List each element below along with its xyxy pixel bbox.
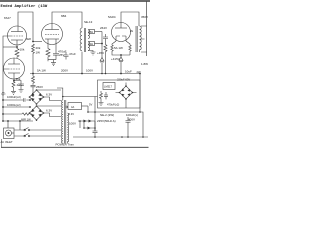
label 5V 2A: [114, 46, 123, 50]
ground OPT secondary: [88, 51, 96, 56]
tube V3 label 5AR4: [108, 15, 116, 19]
label 4 ohm: [90, 42, 93, 46]
node D row: [79, 120, 85, 122]
svg-text:47uF: 47uF: [69, 52, 76, 56]
resistor R6 inline: [22, 113, 30, 115]
title text: [1, 4, 48, 9]
label POWER Tran: [56, 142, 75, 146]
input jack J1: [4, 128, 15, 139]
node BR2 corners: [29, 105, 45, 121]
node BR1 corners: [29, 89, 45, 105]
label +45V: [97, 51, 104, 55]
wire V3 filament: [111, 41, 131, 57]
resistor R3 V2 cathode: [46, 45, 50, 62]
label 8 ohm: [90, 30, 93, 34]
switch SW1: [14, 128, 61, 131]
ground heater bus top: [1, 93, 6, 97]
wire cathode junction left: [3, 46, 17, 48]
svg-text:250V: 250V: [36, 85, 43, 89]
resistor R1 10k: [15, 47, 19, 58]
border frame bottom: [1, 146, 149, 148]
svg-text:5A 1W: 5A 1W: [37, 69, 46, 73]
wire mains line across: [63, 96, 98, 98]
wire filter down: [32, 88, 34, 97]
diodes BR2: [31, 109, 41, 117]
svg-text:6SJ7: 6SJ7: [4, 16, 11, 20]
ground V1b cathode: [11, 88, 24, 94]
diode D5 row: [84, 121, 95, 131]
svg-text:POWER Tran: POWER Tran: [56, 142, 75, 146]
tube V1: [8, 26, 27, 47]
svg-text:1000uF(x2): 1000uF(x2): [7, 95, 21, 99]
label 68R 1W: [21, 117, 31, 121]
svg-text:Ended Amplifier (13W: Ended Amplifier (13W: [1, 4, 48, 9]
label 10000u: [7, 103, 21, 107]
diode D3: [100, 58, 104, 74]
wire fuse right: [87, 106, 89, 113]
switch SW2: [14, 134, 61, 137]
capacitor C6 in box: [104, 92, 108, 99]
label R1 10k: [20, 48, 25, 52]
capacitor C9 inline: [24, 98, 25, 102]
wire V1 plate to load: [18, 12, 33, 42]
node V1 cathode junction: [16, 46, 18, 48]
label 5A 1W mid: [37, 69, 46, 73]
resistor R7 in box: [99, 91, 104, 105]
wire BR to PT: [37, 90, 62, 121]
wire R4 to rail: [105, 54, 107, 74]
label C3: [69, 52, 76, 56]
node secondary: [101, 43, 103, 45]
transformer OPT primary: [80, 28, 86, 52]
node mains junction: [62, 96, 64, 98]
fuse F1 box: [66, 103, 88, 110]
tube V3 rectifier: [112, 23, 131, 42]
label R2 C1: [16, 77, 23, 87]
capacitor C8: [126, 117, 131, 124]
svg-text:1W: 1W: [36, 51, 41, 55]
svg-text:235V(50Hz A): 235V(50Hz A): [97, 119, 116, 123]
tube V1 label: [4, 16, 11, 20]
svg-text:68R 1W: 68R 1W: [21, 117, 31, 121]
tube V2 label 6B4: [61, 14, 67, 18]
label 100V: [69, 112, 77, 126]
label 1.8W: [141, 62, 148, 66]
wire PT primary top: [57, 88, 63, 100]
svg-text:10000u(x2): 10000u(x2): [7, 103, 21, 107]
speaker terminal 8 ohm: [89, 30, 102, 34]
diodes BR3: [122, 89, 131, 97]
transformer PT main winding right: [67, 113, 68, 143]
label 10uF: [125, 70, 141, 74]
svg-text:SE-13: SE-13: [84, 20, 93, 24]
node V1b cathode: [13, 80, 15, 82]
wire OPT primary bottom: [81, 52, 83, 74]
label C2 470uF: [58, 49, 67, 56]
wire ground bus: [73, 136, 148, 138]
wire jack top riser: [8, 121, 20, 130]
svg-text:16k: 16k: [16, 77, 21, 81]
diodes D1 D2: [84, 120, 92, 123]
wire V1b grid left: [3, 47, 8, 121]
label 350V: [141, 15, 148, 19]
wire NE row: [88, 111, 140, 113]
svg-text:2k: 2k: [130, 29, 134, 33]
svg-text:10uF: 10uF: [125, 70, 132, 74]
transformer OPT secondary: [88, 30, 90, 51]
bridge rectifier BR2: [30, 106, 44, 120]
wire V2 grid: [33, 41, 42, 43]
label 264V: [100, 26, 107, 30]
diode D4: [119, 57, 123, 74]
label 220uF 63V: [117, 77, 130, 81]
svg-text:+415V: +415V: [111, 57, 120, 61]
regulator box: [98, 80, 141, 108]
node ground bus: [94, 136, 144, 138]
label 200V: [61, 69, 68, 73]
node bus dots: [2, 99, 31, 122]
capacitor C5 filter: [31, 85, 36, 89]
svg-text:10k: 10k: [20, 48, 25, 52]
svg-text:NE-2 (2W): NE-2 (2W): [100, 113, 114, 117]
svg-text:4A: 4A: [71, 105, 74, 109]
svg-text:350V: 350V: [141, 15, 148, 19]
wire right edge: [146, 1, 148, 56]
node V2 grid junction: [32, 41, 34, 43]
capacitor C2 V2 cathode: [53, 45, 59, 60]
wire right rail down: [139, 74, 141, 113]
label +415V: [111, 57, 120, 61]
label 250V: [36, 85, 43, 89]
speaker terminal 4 ohm: [89, 42, 102, 46]
svg-text:LM317: LM317: [104, 85, 112, 89]
resistor R8 plate load 20k: [32, 44, 35, 56]
diodes BR1: [31, 93, 41, 101]
IC U1 box: [103, 83, 115, 90]
capacitor C1 bypass: [14, 81, 25, 89]
transformer PT HV winding: [136, 26, 147, 52]
wire secondary common: [101, 32, 103, 58]
wire V1 grid left: [3, 36, 11, 47]
svg-text:264V: 264V: [100, 26, 107, 30]
svg-text:100V: 100V: [69, 122, 76, 126]
label 6.3V a: [46, 93, 52, 97]
diode D5: [88, 127, 91, 130]
svg-text:100V: 100V: [86, 69, 93, 73]
svg-text:4.7u: 4.7u: [17, 83, 23, 87]
resistor R4: [104, 42, 107, 54]
svg-text:6.3V: 6.3V: [46, 93, 52, 97]
resistor R5 filter: [32, 74, 35, 85]
svg-text:20k: 20k: [36, 46, 41, 50]
wire bottom-left edge: [1, 139, 3, 147]
wire C8 to bus: [127, 124, 129, 137]
wire V2 plate to OPT: [52, 12, 82, 28]
label 2k5: [130, 29, 134, 33]
ground V2 cathode: [48, 60, 56, 66]
svg-text:470uF(x2): 470uF(x2): [107, 103, 119, 107]
capacitor C4: [103, 34, 108, 42]
label 400V: [128, 117, 135, 121]
svg-text:1.8W: 1.8W: [141, 62, 148, 66]
svg-text:8Ω: 8Ω: [90, 30, 93, 34]
label 470uF x2: [107, 103, 119, 107]
label mains voltage: [97, 119, 116, 123]
wire V3 plate to HV: [121, 12, 139, 26]
node rail right: [101, 73, 141, 75]
label 100uF: [126, 113, 138, 117]
label fuse: [71, 102, 92, 109]
wire reg cap drop: [94, 97, 96, 113]
svg-text:6.3V: 6.3V: [69, 112, 75, 116]
svg-text:AC INLET: AC INLET: [1, 140, 13, 144]
svg-text:+45V: +45V: [97, 51, 104, 55]
svg-text:200V: 200V: [61, 69, 68, 73]
svg-text:220uF 63V: 220uF 63V: [117, 77, 130, 81]
node NE row: [94, 111, 141, 113]
node rectifier rail: [120, 73, 122, 75]
label R8 20k 1W: [36, 46, 41, 55]
svg-text:6k8: 6k8: [26, 37, 31, 41]
label U1: [104, 85, 112, 89]
label 6.3V b: [46, 109, 52, 113]
border frame top: [0, 0, 150, 2]
tube V1b: [4, 58, 25, 81]
capacitor C7: [93, 112, 98, 137]
wire B+ rail: [30, 73, 140, 75]
node filament center: [120, 54, 122, 56]
wire heater bus rows: [3, 100, 33, 121]
node plate load rail: [32, 73, 34, 75]
svg-text:4Ω: 4Ω: [90, 42, 93, 46]
label SE-13: [84, 20, 93, 24]
bridge rectifier BR1: [30, 90, 44, 104]
wire plate load to rail: [32, 56, 34, 74]
bridge rectifier BR3: [116, 83, 137, 109]
transformer PT main winding left: [62, 100, 66, 143]
label filter caps: [7, 95, 21, 99]
label 100V: [86, 69, 93, 73]
resistor R2 cathode: [12, 81, 15, 90]
node OPT rail: [81, 73, 83, 75]
label NE-2: [100, 113, 114, 117]
node D5: [83, 127, 96, 129]
label 6k8: [26, 37, 31, 41]
svg-text:5V: 5V: [89, 102, 92, 106]
node BR3: [119, 85, 134, 100]
capacitor C3 rail: [64, 52, 69, 60]
svg-text:6B4: 6B4: [61, 14, 67, 18]
svg-text:6.3V: 6.3V: [46, 109, 52, 113]
svg-text:5A 1W: 5A 1W: [114, 46, 123, 50]
label jack: [1, 140, 13, 144]
diode D1 row: [78, 121, 95, 128]
wire right drop: [140, 112, 143, 137]
svg-text:5AR4: 5AR4: [108, 15, 116, 19]
tube V2: [42, 24, 63, 45]
